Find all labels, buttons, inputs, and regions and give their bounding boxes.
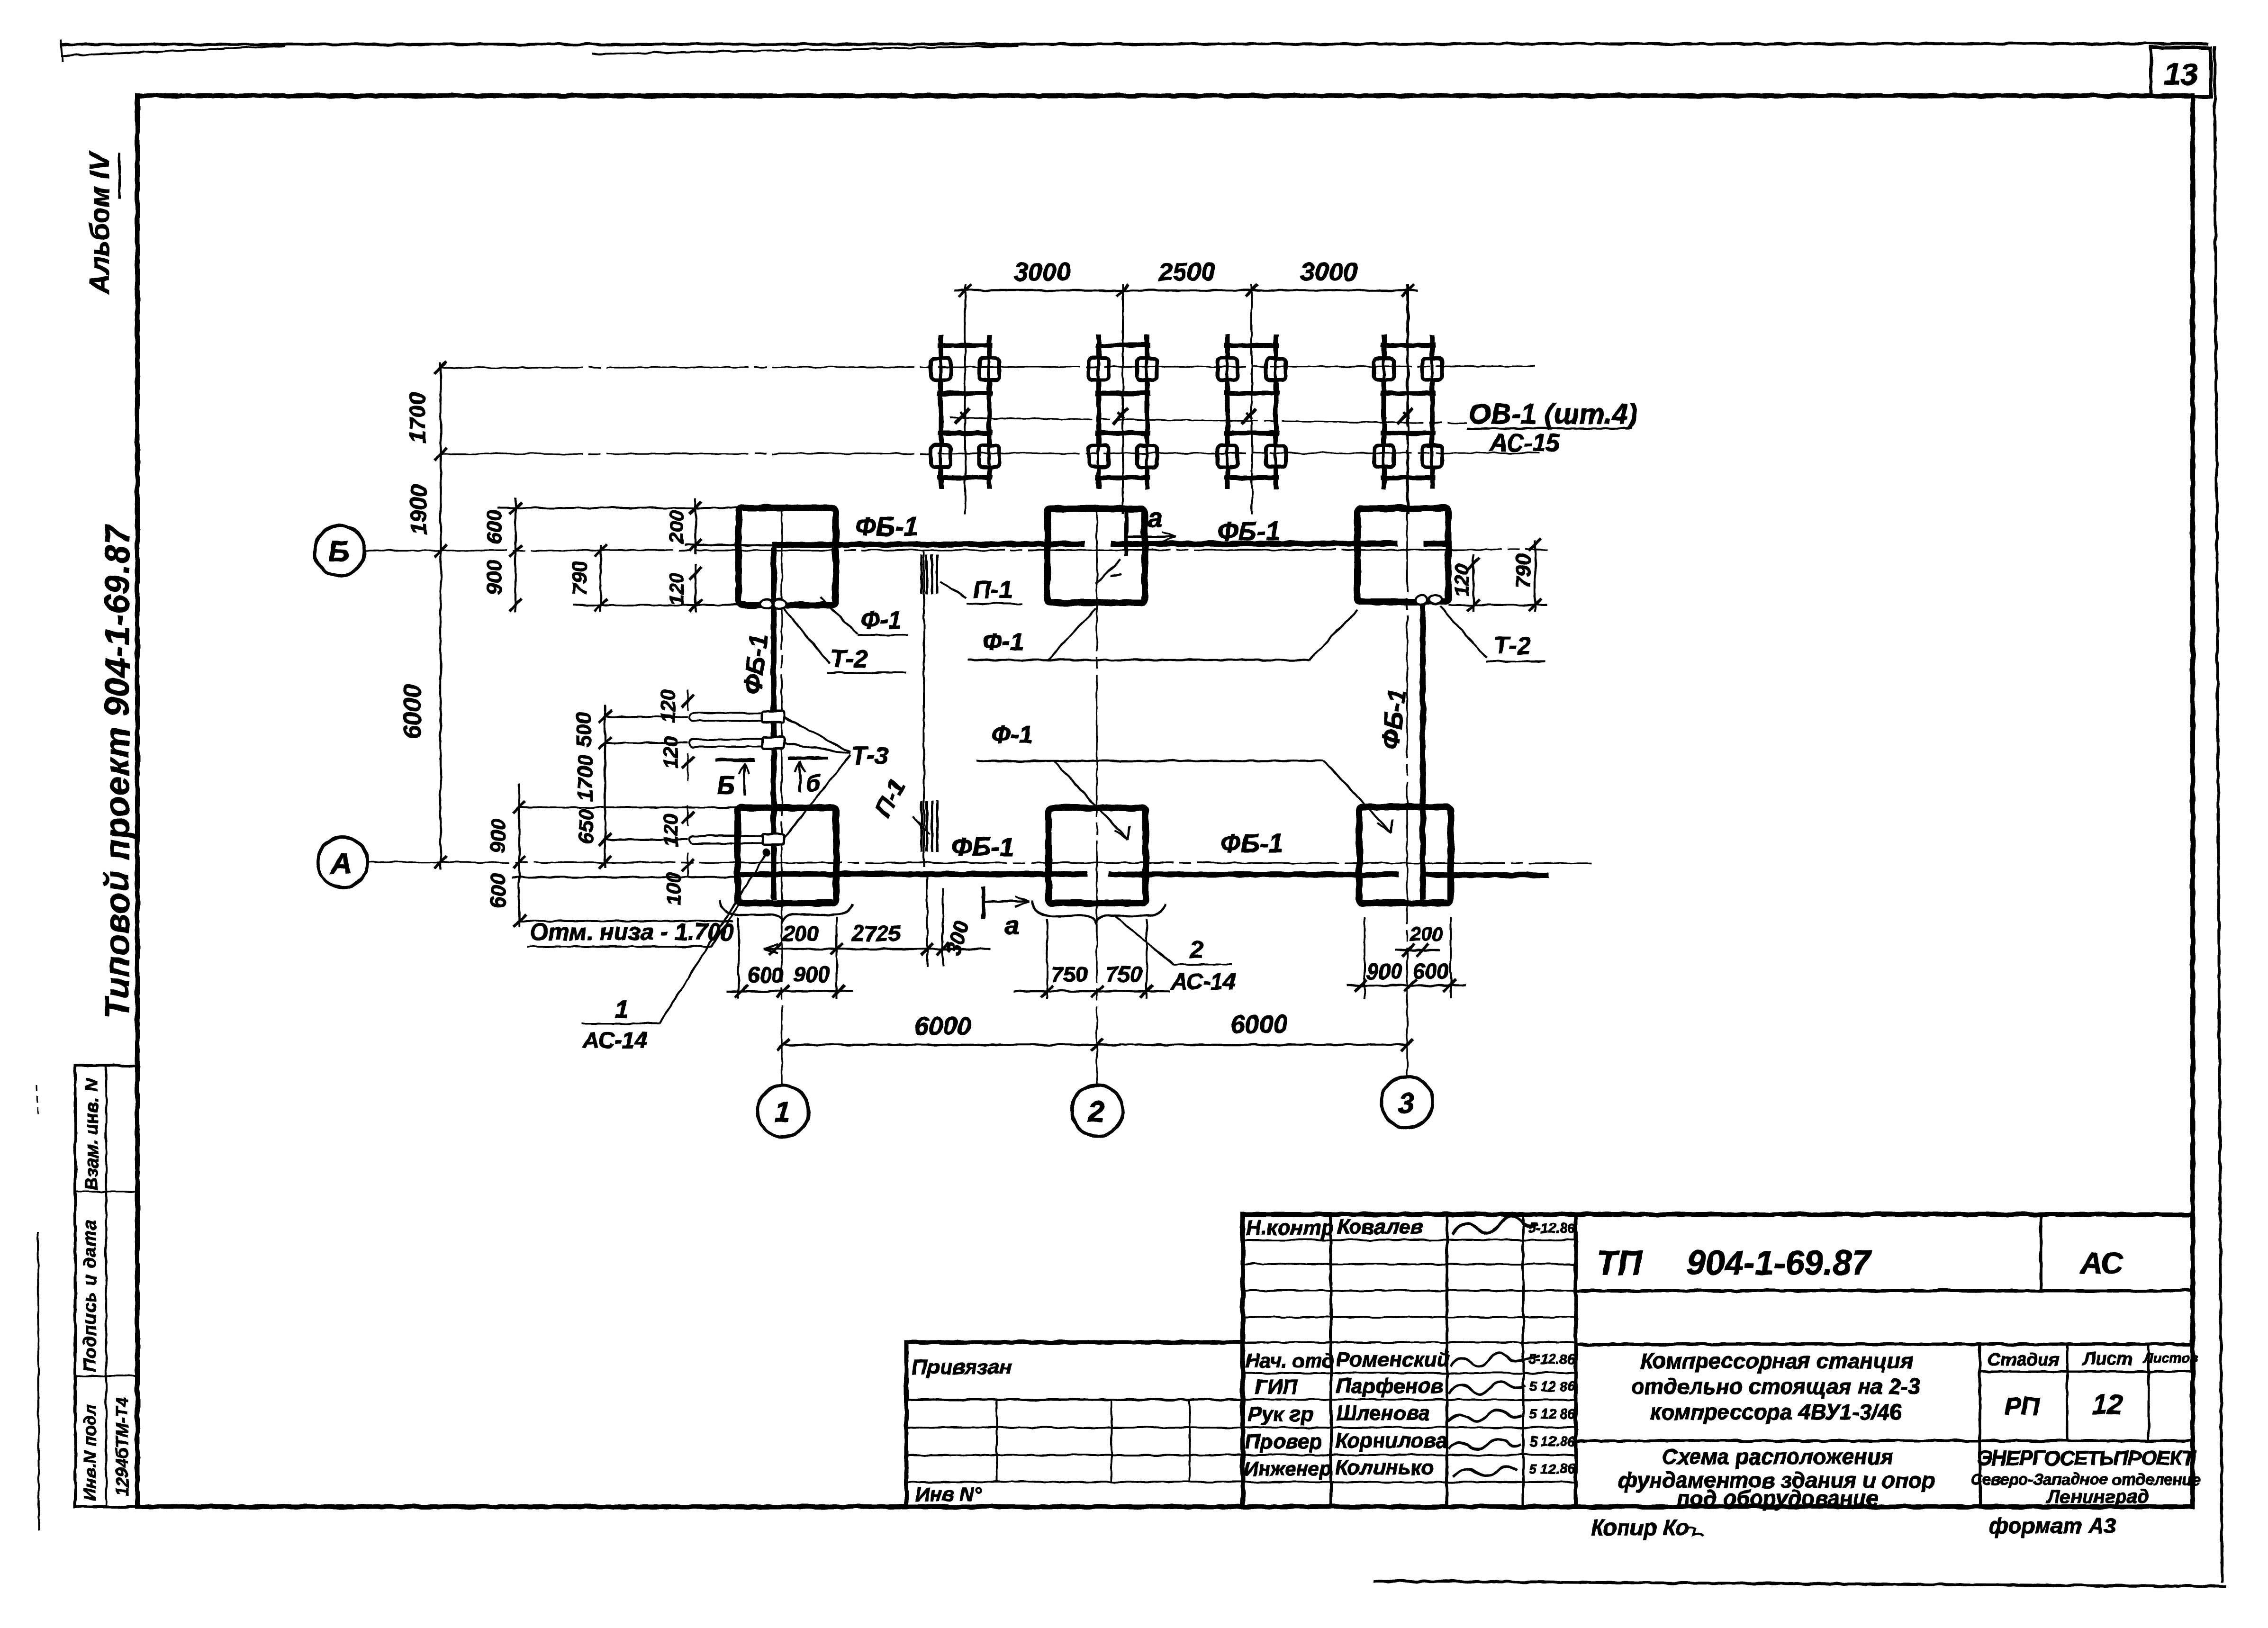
equipment support OV-1 #3 bbox=[1218, 284, 1286, 514]
dim line 750/750 bbox=[1014, 990, 1170, 992]
axis bubble 1 bbox=[758, 1085, 809, 1137]
svg-text:ЭНЕРГОСЕТЬПРОЕКТ: ЭНЕРГОСЕТЬПРОЕКТ bbox=[1978, 1447, 2196, 1470]
svg-text:Типовой проект 904-1-69.87: Типовой проект 904-1-69.87 bbox=[99, 524, 136, 1019]
anchor bolt T-3 at y=1772 bbox=[689, 836, 777, 843]
svg-text:П-1: П-1 bbox=[973, 576, 1013, 604]
svg-text:Инженер: Инженер bbox=[1244, 1457, 1331, 1480]
svg-text:5 12.86: 5 12.86 bbox=[1529, 1462, 1576, 1477]
svg-text:600: 600 bbox=[748, 963, 784, 987]
signature 5 bbox=[1449, 1439, 1521, 1449]
svg-text:600: 600 bbox=[483, 509, 506, 544]
svg-text:Б: Б bbox=[328, 535, 349, 568]
dim line 600/900 at B1 bbox=[515, 497, 516, 612]
top dimension line bbox=[955, 289, 1418, 291]
section mark a top line bbox=[1126, 536, 1176, 538]
svg-text:компрессора 4ВУ1-3/46: компрессора 4ВУ1-3/46 bbox=[1650, 1400, 1902, 1424]
svg-text:1294бТМ-Т4: 1294бТМ-Т4 bbox=[112, 1397, 132, 1496]
svg-text:ФБ-1: ФБ-1 bbox=[855, 511, 918, 541]
svg-text:ГИП: ГИП bbox=[1255, 1375, 1298, 1399]
P-1 underline top bbox=[967, 603, 1022, 605]
T-2 leader right bbox=[1440, 606, 1487, 658]
sheet number box top-right bbox=[2151, 47, 2211, 97]
T-3 leader 3 bbox=[784, 755, 850, 838]
support lower axis line bbox=[441, 453, 1540, 454]
svg-text:1: 1 bbox=[615, 996, 629, 1023]
section mark a top arrowhead bbox=[1162, 532, 1176, 542]
paper top edge doubled stroke left bbox=[61, 46, 284, 56]
svg-text:790: 790 bbox=[1512, 553, 1535, 588]
support upper axis line bbox=[441, 366, 1535, 368]
svg-text:2725: 2725 bbox=[851, 921, 901, 946]
beam FB-1 row A segment 1 bbox=[739, 871, 1088, 877]
drawing frame border bbox=[137, 96, 2193, 1507]
beam FB-1 row B segment 3 bbox=[1424, 541, 1446, 546]
ext vertical A1 right bbox=[836, 917, 838, 999]
F-1 underline at B/1 bbox=[858, 634, 908, 636]
beam FB-1 row A segment 2 bbox=[1109, 874, 1399, 875]
section mark b overline bbox=[788, 757, 828, 760]
underline label 1 bbox=[582, 1022, 660, 1024]
dim line 500/1700/650 bbox=[604, 705, 606, 868]
svg-text:750: 750 bbox=[1051, 962, 1088, 986]
svg-text:3000: 3000 bbox=[1301, 258, 1357, 286]
svg-text:500: 500 bbox=[572, 712, 596, 747]
dim line 200 col3 bbox=[1395, 949, 1439, 951]
svg-text:Привязан: Привязан bbox=[912, 1356, 1012, 1379]
foundation block F-1 at B/3 bbox=[1357, 508, 1448, 602]
OV-1 label underline bbox=[1466, 427, 1632, 430]
section mark a bottom arrowhead bbox=[1015, 896, 1029, 907]
svg-text:АС-15: АС-15 bbox=[1489, 429, 1560, 457]
svg-text:Схема расположения: Схема расположения bbox=[1662, 1444, 1893, 1469]
ext vertical 300 bbox=[942, 888, 944, 967]
svg-text:790: 790 bbox=[568, 561, 591, 596]
anchor bolt T-3 at y=1513 bbox=[689, 713, 777, 721]
svg-text:Ф-1: Ф-1 bbox=[861, 606, 902, 634]
svg-text:б: б bbox=[806, 770, 822, 796]
svg-text:200: 200 bbox=[665, 510, 687, 544]
foundation block F-1 at B/1 bbox=[739, 508, 836, 605]
dim line 200 at B1 bbox=[695, 498, 696, 554]
svg-text:2: 2 bbox=[1088, 1095, 1104, 1128]
svg-text:900: 900 bbox=[794, 962, 830, 986]
svg-text:2500: 2500 bbox=[1158, 258, 1215, 286]
T-3 leader 2 bbox=[784, 743, 850, 753]
svg-text:Т-3: Т-3 bbox=[851, 742, 888, 769]
svg-text:1: 1 bbox=[774, 1096, 790, 1129]
svg-text:ТП: ТП bbox=[1597, 1244, 1643, 1282]
foundation block F-1 at A/3 bbox=[1359, 807, 1451, 903]
axis bubble A bbox=[317, 837, 368, 887]
svg-text:3: 3 bbox=[1398, 1087, 1414, 1120]
F-1 leader to block B/2 bbox=[1048, 608, 1096, 660]
dim line 900/600 at A1 bbox=[518, 784, 520, 928]
leader from label 2 to block A2 bbox=[1114, 916, 1174, 965]
svg-text:5-12.86: 5-12.86 bbox=[1528, 1221, 1575, 1236]
dim line 6000/6000 bbox=[782, 1044, 1407, 1046]
svg-text:Т-2: Т-2 bbox=[831, 645, 867, 673]
equipment support OV-1 #4 bbox=[1374, 284, 1442, 514]
axis bubble 3 bbox=[1382, 1076, 1433, 1128]
extension line block B3 bottom bbox=[1448, 604, 1547, 606]
svg-text:Роменский: Роменский bbox=[1336, 1348, 1450, 1371]
svg-text:600: 600 bbox=[487, 873, 510, 908]
extension line block A1 bottom bbox=[519, 920, 733, 922]
anchor bolts T-2 at block B/3 bbox=[1415, 595, 1428, 605]
svg-text:200: 200 bbox=[782, 921, 819, 946]
paper top edge left tick bbox=[61, 40, 63, 62]
svg-text:13: 13 bbox=[2164, 57, 2197, 91]
beam FB-1 row B segment 1 bbox=[772, 544, 1085, 545]
Kopir squiggle bbox=[1685, 1527, 1703, 1536]
equipment support OV-1 #2 bbox=[1089, 284, 1157, 514]
foundation block F-1 at A/2 bbox=[1048, 808, 1146, 903]
svg-text:ОВ-1 (шт.4): ОВ-1 (шт.4) bbox=[1469, 398, 1637, 430]
left margin table bbox=[75, 1066, 137, 1507]
underline label 2 bbox=[1174, 964, 1232, 966]
extension line block B1 bottom bbox=[573, 604, 739, 606]
dim line 790 at B1 bbox=[600, 545, 602, 612]
svg-text:3000: 3000 bbox=[1014, 258, 1071, 286]
svg-text:Провер: Провер bbox=[1245, 1430, 1322, 1453]
brace under block A1 bbox=[719, 900, 853, 921]
F-1 leader to block A/3 bbox=[1324, 761, 1391, 832]
ext vertical A3 right bbox=[1450, 917, 1452, 999]
svg-text:6000: 6000 bbox=[914, 1012, 971, 1040]
axis 2 vertical dash-dot bbox=[1096, 509, 1097, 1085]
svg-text:900: 900 bbox=[1366, 959, 1403, 984]
dim line 790 at B3 bbox=[1534, 540, 1536, 612]
svg-text:отдельно стоящая на 2-3: отдельно стоящая на 2-3 bbox=[1631, 1374, 1920, 1399]
overline above IV bbox=[118, 153, 121, 199]
section mark b arrow stem bbox=[799, 761, 801, 792]
svg-text:АС-14: АС-14 bbox=[582, 1028, 647, 1053]
svg-text:Рук гр: Рук гр bbox=[1248, 1402, 1314, 1426]
svg-text:6000: 6000 bbox=[1231, 1010, 1288, 1039]
svg-text:900: 900 bbox=[483, 560, 506, 595]
svg-text:a: a bbox=[1004, 910, 1019, 940]
beam FB-1 row A segment 3 bbox=[1424, 875, 1548, 875]
anchor bolt T-3 at y=1568 bbox=[689, 739, 777, 747]
section mark B overline bbox=[715, 759, 755, 762]
paper top edge line bbox=[61, 44, 2209, 45]
signature 3 bbox=[1449, 1382, 1526, 1394]
svg-text:Инв.N подл: Инв.N подл bbox=[80, 1404, 99, 1501]
svg-text:Лист: Лист bbox=[2082, 1349, 2132, 1369]
svg-text:формат А3: формат А3 bbox=[1989, 1513, 2116, 1538]
svg-text:Ф-1: Ф-1 bbox=[992, 721, 1033, 749]
svg-text:Инв N°: Инв N° bbox=[915, 1483, 982, 1505]
extension to bolt 2 bbox=[605, 742, 688, 744]
T-2 underline right bbox=[1486, 660, 1545, 662]
svg-text:Б: Б bbox=[717, 771, 735, 800]
signature 6 bbox=[1453, 1466, 1517, 1476]
P-1 hatch stroke top bbox=[921, 554, 923, 594]
svg-text:ФБ-1: ФБ-1 bbox=[951, 832, 1014, 861]
section mark a bottom line bbox=[983, 901, 1029, 903]
paper top edge doubled stroke middle bbox=[592, 46, 1019, 54]
svg-text:Отм. низа - 1.700: Отм. низа - 1.700 bbox=[530, 919, 734, 945]
svg-text:904-1-69.87: 904-1-69.87 bbox=[1687, 1244, 1872, 1282]
F-1 underline centre upper bbox=[968, 659, 1309, 661]
svg-text:Компрессорная станция: Компрессорная станция bbox=[1640, 1348, 1913, 1373]
svg-text:120: 120 bbox=[1451, 564, 1473, 597]
beam FB-1 row B segment 2 bbox=[1111, 543, 1398, 544]
axis 1 vertical dash-dot bbox=[781, 508, 782, 1085]
ext vertical 2725 right bbox=[926, 877, 928, 967]
svg-text:Взам. инв. N: Взам. инв. N bbox=[82, 1078, 102, 1190]
signature 2 bbox=[1451, 1353, 1540, 1366]
svg-text:Н.контр: Н.контр bbox=[1246, 1216, 1334, 1239]
section mark a bottom bar bbox=[981, 886, 985, 919]
T-2 leader left bbox=[784, 608, 829, 663]
extension line block A1 top bbox=[519, 806, 738, 808]
equipment support OV-1 #1 bbox=[931, 284, 999, 514]
paper right edge line bbox=[2214, 45, 2222, 1583]
foundation block F-1 at B/2 bbox=[1048, 509, 1145, 603]
extension line left of beam B row bbox=[685, 544, 772, 546]
ext vertical A3 left bbox=[1364, 917, 1365, 999]
dim line 900/600 at A3 bbox=[1347, 985, 1466, 986]
extension to bolt 3 bbox=[605, 839, 688, 841]
section mark B arrow stem bbox=[743, 763, 746, 795]
svg-text:Т-2: Т-2 bbox=[1494, 632, 1531, 660]
title block left extension bbox=[906, 1342, 1243, 1507]
svg-text:120: 120 bbox=[657, 689, 679, 723]
left vertical dimension line bbox=[440, 362, 442, 869]
ext vertical A2 right bbox=[1146, 919, 1148, 999]
P-1 panel line vertical bbox=[923, 551, 925, 867]
F-1 leader to block A/2 bbox=[1054, 761, 1128, 840]
F-1 arrow at block A/3 bbox=[1377, 819, 1392, 832]
axis A horizontal dash-dot bbox=[368, 862, 1592, 863]
svg-text:120: 120 bbox=[660, 736, 682, 769]
paper left edge dashed mark bbox=[37, 1085, 38, 1118]
svg-text:АС: АС bbox=[2079, 1246, 2123, 1280]
section mark a top bar bbox=[1124, 509, 1128, 556]
P-1 leader top bbox=[940, 582, 967, 598]
svg-text:Парфенов: Парфенов bbox=[1336, 1375, 1443, 1398]
leader from label 1 to block A1 bbox=[660, 855, 766, 1023]
left margin table divider 2 bbox=[75, 1375, 137, 1377]
beam FB-1 column 1 vertical bbox=[771, 547, 777, 899]
axis 3 vertical dash-dot bbox=[1406, 284, 1408, 1076]
svg-text:Колинько: Колинько bbox=[1335, 1456, 1434, 1479]
svg-text:ФБ-1: ФБ-1 bbox=[1220, 828, 1283, 858]
svg-text:Корнилова: Корнилова bbox=[1335, 1429, 1447, 1452]
svg-text:5 12 86: 5 12 86 bbox=[1529, 1379, 1576, 1394]
svg-text:5 12 86: 5 12 86 bbox=[1529, 1407, 1576, 1422]
note underline bbox=[527, 946, 712, 948]
svg-text:1700: 1700 bbox=[574, 755, 597, 801]
ext vertical A1 left bbox=[738, 917, 740, 999]
F-1 arrow in block B/2 bbox=[1096, 559, 1122, 584]
svg-text:120: 120 bbox=[660, 814, 682, 847]
paper left edge partial line bbox=[38, 1232, 39, 1530]
svg-text:Листов: Листов bbox=[2143, 1351, 2198, 1366]
title block main outline bbox=[1243, 1214, 2193, 1507]
P-1 hatch stroke bottom bbox=[921, 801, 923, 852]
arrow left of dim line bbox=[764, 944, 777, 954]
extension line block B1 top bbox=[497, 507, 739, 509]
svg-text:Ковалев: Ковалев bbox=[1337, 1215, 1423, 1239]
note leader bbox=[712, 904, 739, 947]
svg-text:Подпись и дата: Подпись и дата bbox=[80, 1220, 100, 1372]
svg-text:РП: РП bbox=[2005, 1392, 2041, 1420]
svg-text:Ф-1: Ф-1 bbox=[983, 628, 1024, 656]
left margin table divider 1 bbox=[75, 1191, 137, 1193]
svg-text:600: 600 bbox=[1413, 959, 1449, 984]
svg-text:900: 900 bbox=[487, 818, 510, 853]
svg-text:750: 750 bbox=[1106, 962, 1142, 986]
dim line 200/2725/300 bbox=[764, 948, 990, 950]
svg-text:АС-14: АС-14 bbox=[1171, 969, 1236, 995]
section mark B arrowhead bbox=[739, 763, 750, 774]
svg-text:Альбом IV: Альбом IV bbox=[84, 151, 115, 295]
F-1 leader at B/1 bbox=[820, 597, 858, 634]
F-1 arrow at block A/2 bbox=[1114, 826, 1129, 840]
svg-text:под оборудование: под оборудование bbox=[1677, 1486, 1878, 1510]
svg-text:6000: 6000 bbox=[399, 684, 426, 739]
T-2 underline left bbox=[827, 672, 906, 674]
F-1 underline centre lower bbox=[976, 760, 1324, 762]
svg-text:5 12.86: 5 12.86 bbox=[1529, 1434, 1576, 1449]
extension to bolt 1 bbox=[605, 716, 688, 718]
dim line 600/900 bottom bbox=[727, 990, 853, 992]
extension line left of beam A row bbox=[512, 877, 739, 877]
svg-text:5-12.86: 5-12.86 bbox=[1528, 1352, 1575, 1367]
svg-text:100: 100 bbox=[662, 872, 685, 905]
svg-text:2: 2 bbox=[1190, 936, 1204, 964]
axis B horizontal dash-dot bbox=[365, 550, 1548, 551]
svg-text:120: 120 bbox=[665, 572, 687, 606]
svg-text:Стадия: Стадия bbox=[1988, 1350, 2059, 1370]
axis bubble 2 bbox=[1072, 1085, 1123, 1136]
svg-text:Копир Ко: Копир Ко bbox=[1591, 1515, 1689, 1540]
signature 4 bbox=[1448, 1410, 1522, 1421]
T-3 leader 1 bbox=[784, 717, 850, 752]
dim line 120 at B3 bbox=[1473, 554, 1474, 612]
svg-text:Нач. отд: Нач. отд bbox=[1245, 1349, 1334, 1372]
svg-text:ФБ-1: ФБ-1 bbox=[1217, 516, 1280, 546]
ext vertical A2 left bbox=[1046, 919, 1048, 999]
svg-text:А: А bbox=[330, 847, 352, 880]
dim line 120 at B1 bbox=[695, 564, 696, 612]
P-1 leader lower bbox=[912, 816, 930, 835]
leader dot bbox=[763, 849, 770, 857]
svg-text:1900: 1900 bbox=[407, 484, 432, 535]
F-1 leader to block B/3 bbox=[1309, 610, 1358, 660]
anchor bolts T-2 at block B/1 bbox=[760, 599, 773, 609]
svg-text:1700: 1700 bbox=[406, 392, 431, 443]
foundation block F-1 at A/1 bbox=[738, 808, 836, 903]
support middle axis line bbox=[950, 418, 1466, 423]
beam FB-1 column 3 vertical bbox=[1420, 596, 1426, 899]
svg-text:12: 12 bbox=[2092, 1389, 2123, 1420]
signature 1 bbox=[1453, 1215, 1538, 1235]
svg-text:200: 200 bbox=[1410, 923, 1443, 945]
svg-text:a: a bbox=[1148, 503, 1162, 533]
brace under block A2 bbox=[1032, 900, 1166, 922]
left margin table divider vertical bbox=[105, 1066, 107, 1507]
svg-text:Шленова: Шленова bbox=[1336, 1402, 1430, 1425]
svg-text:Ленинград: Ленинград bbox=[2045, 1486, 2149, 1507]
axis bubble B bbox=[315, 525, 365, 576]
paper bottom edge line bbox=[1374, 1581, 2227, 1586]
svg-text:650: 650 bbox=[575, 809, 598, 844]
section mark b arrowhead bbox=[795, 761, 805, 772]
